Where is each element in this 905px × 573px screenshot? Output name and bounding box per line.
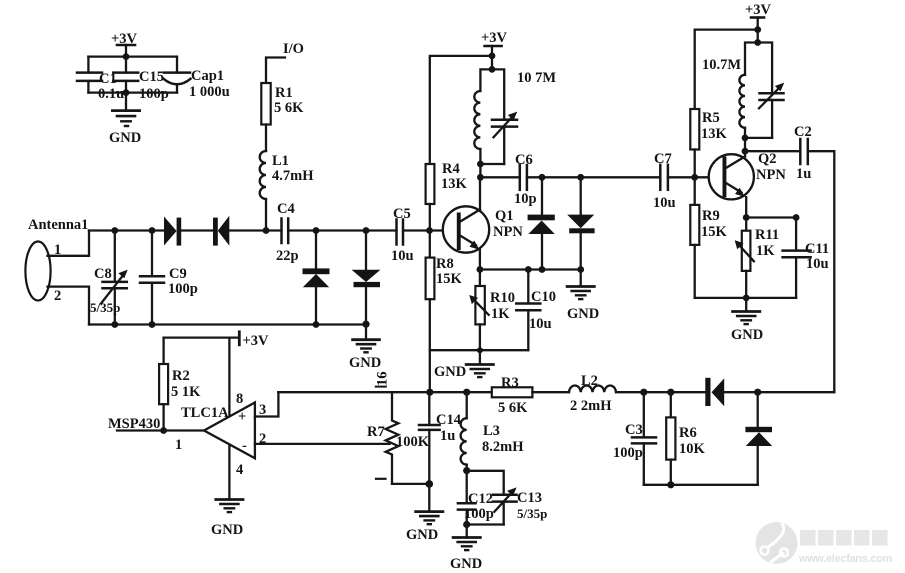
wire Q2 emitter	[743, 197, 750, 221]
transistor Q2 NPN	[709, 151, 787, 199]
svg-text:I/O: I/O	[283, 41, 304, 57]
svg-text:10u: 10u	[806, 256, 829, 272]
svg-text:C14: C14	[436, 412, 461, 428]
resistor R9 15K	[690, 177, 727, 298]
resistor R8 15K	[426, 231, 463, 300]
ground GND Q2 stage	[731, 312, 763, 344]
antenna Antenna1	[25, 217, 88, 304]
wire R2 to output node	[160, 404, 167, 434]
svg-text:10K: 10K	[679, 441, 706, 457]
wire D7 to right rail	[724, 389, 834, 396]
svg-text:1u: 1u	[796, 166, 811, 182]
svg-text:5 1K: 5 1K	[171, 384, 201, 400]
svg-text:+3V: +3V	[111, 31, 138, 47]
svg-text:100p: 100p	[464, 506, 494, 522]
svg-text:Cap1: Cap1	[191, 68, 224, 84]
label minus tap	[376, 478, 386, 480]
wire D2 to C4	[229, 229, 281, 231]
wire +3V into tank L4	[489, 56, 496, 73]
diode D4 shunt down	[352, 231, 381, 325]
capacitor C6 10p	[514, 152, 537, 207]
ground GND op-amp	[211, 500, 243, 539]
svg-text:R11: R11	[755, 227, 779, 243]
wire antenna pin 1	[48, 231, 90, 256]
resistor R4 13K	[426, 161, 468, 204]
svg-text:GND: GND	[567, 306, 599, 322]
svg-text:C6: C6	[515, 152, 533, 168]
svg-text:R10: R10	[490, 290, 515, 306]
ground GND cap bank	[109, 111, 141, 146]
svg-text:C7: C7	[654, 151, 672, 167]
wire Q1 collector	[479, 177, 481, 210]
wire main bus	[278, 389, 492, 396]
wire R8 bottom to rail and bus	[430, 299, 529, 392]
wire main line antenna to diodes	[89, 227, 164, 234]
svg-text:100p: 100p	[613, 445, 643, 461]
wire emitter rail	[480, 266, 584, 273]
capacitor C8 variable 5/35p	[90, 231, 128, 325]
capacitor C12 100p	[458, 471, 494, 525]
svg-text:10u: 10u	[653, 195, 676, 211]
wire +3V to R4	[430, 56, 492, 164]
svg-text:1K: 1K	[491, 306, 510, 322]
capacitor C2 1u	[794, 124, 812, 182]
svg-text:+: +	[238, 409, 246, 425]
svg-text:10 7M: 10 7M	[517, 70, 556, 86]
inductor tank 10 7M coil	[474, 69, 556, 164]
svg-text:GND: GND	[731, 327, 763, 343]
svg-text:TLC1A: TLC1A	[181, 405, 229, 421]
svg-text:C4: C4	[277, 201, 295, 217]
power +3V Q1 stage	[481, 30, 508, 59]
wire pin 8	[229, 338, 243, 415]
svg-text:4: 4	[236, 462, 243, 478]
diode D2 series	[213, 216, 229, 246]
wire R7 bottom	[392, 480, 433, 488]
transistor Q1 NPN	[443, 206, 524, 252]
svg-text:13K: 13K	[701, 126, 728, 142]
wire right branch	[176, 57, 178, 93]
svg-text:GND: GND	[109, 130, 141, 146]
resistor R1	[261, 83, 304, 125]
inductor tank2 10.7M coil	[702, 43, 758, 138]
wire L2 to D7	[616, 389, 705, 396]
svg-text:C9: C9	[169, 266, 187, 282]
inductor L3 8.2mH	[461, 392, 525, 474]
svg-text:R2: R2	[172, 368, 190, 384]
wire pin 2	[255, 443, 390, 445]
node pin 16	[375, 372, 391, 387]
diode D3 shunt up	[303, 231, 330, 325]
svg-text:Q2: Q2	[758, 151, 777, 167]
inductor L2 2 2mH	[569, 373, 616, 414]
svg-text:10u: 10u	[391, 248, 414, 264]
svg-text:+3V: +3V	[243, 333, 270, 349]
wire antenna pin 2	[48, 287, 90, 325]
capacitor tank2 variable	[758, 43, 785, 138]
wire bottom rail of cap bank	[88, 89, 177, 109]
power +3V op-amp	[164, 332, 269, 349]
svg-text:8: 8	[236, 391, 243, 407]
resistor R2 5 1K	[159, 364, 201, 404]
svg-text:2 2mH: 2 2mH	[570, 398, 612, 414]
svg-text:+3V: +3V	[481, 30, 508, 46]
wire emitter rail Q2	[746, 214, 799, 221]
svg-text:10u: 10u	[529, 316, 552, 332]
capacitor C7 10u	[653, 151, 676, 211]
svg-text:1u: 1u	[440, 428, 455, 444]
svg-text:100K: 100K	[396, 434, 430, 450]
svg-text:GND: GND	[349, 355, 381, 371]
svg-text:R6: R6	[679, 425, 697, 441]
svg-text:5/35p: 5/35p	[90, 300, 120, 315]
inductor L1 4.7mH	[260, 151, 315, 199]
capacitor C3 100p	[613, 392, 656, 485]
watermark logo elecfans	[756, 522, 798, 564]
svg-text:5 6K: 5 6K	[498, 400, 528, 416]
svg-text:5/35p: 5/35p	[517, 506, 547, 521]
svg-text:NPN: NPN	[493, 224, 523, 240]
wire pin 3 to bus	[255, 392, 279, 416]
svg-text:4.7mH: 4.7mH	[272, 168, 314, 184]
wire C4 to C5	[288, 227, 396, 234]
capacitor C13 variable 5/35p	[467, 471, 548, 525]
wire R3 to L2	[532, 391, 569, 393]
svg-text:1: 1	[175, 437, 182, 453]
wire C6 to C7	[527, 174, 660, 181]
wire Q2 bottom rail	[695, 295, 796, 311]
svg-text:L1: L1	[272, 153, 289, 169]
svg-text:C13: C13	[517, 490, 542, 506]
wire +3V into tank2	[754, 30, 761, 46]
svg-text:R4: R4	[442, 161, 460, 177]
capacitor Cap1 electrolytic	[164, 68, 230, 100]
wire L1 to main line	[263, 199, 270, 234]
power +3V Q2 stage	[745, 2, 772, 33]
svg-text:10.7M: 10.7M	[702, 57, 741, 73]
wire D6 to ground	[580, 270, 582, 286]
wire +3V to R2	[162, 338, 164, 364]
svg-text:GND: GND	[434, 364, 466, 380]
resistor R5 13K	[690, 109, 727, 150]
svg-text:10p: 10p	[514, 191, 537, 207]
capacitor tank variable	[492, 69, 517, 164]
wire Q1 emitter	[477, 250, 484, 273]
svg-text:C11: C11	[805, 241, 829, 257]
wire R5 to base	[694, 150, 696, 178]
diode D8 shunt up	[745, 392, 772, 485]
diode D7 series	[705, 378, 724, 406]
capacitor C15	[113, 69, 169, 102]
capacitor C14 1u	[419, 392, 461, 484]
resistor R3 5 6K	[492, 375, 533, 416]
wire +3V to R5	[695, 30, 758, 109]
wire L3 tank bottom	[463, 521, 504, 537]
svg-text:L2: L2	[581, 373, 598, 389]
wire C5 to Q1 base	[403, 227, 443, 234]
capacitor C10 10u	[516, 270, 556, 351]
wire C2 to right rail	[808, 151, 835, 392]
wire left branch	[87, 57, 89, 93]
svg-text:5 6K: 5 6K	[274, 100, 304, 116]
svg-text:15K: 15K	[436, 271, 463, 287]
wire Q2 collector diag	[725, 157, 745, 169]
node top rail of C1/C15/Cap1 bank	[88, 53, 177, 60]
wire middle branch	[125, 57, 127, 93]
svg-text:Q1: Q1	[495, 208, 514, 224]
svg-text:-: -	[242, 438, 247, 454]
svg-text:+3V: +3V	[745, 2, 772, 18]
ground GND C12	[450, 538, 482, 573]
capacitor C11 10u	[783, 218, 830, 298]
node I/O	[266, 41, 304, 83]
power rail +3V top-left	[111, 31, 138, 56]
wire C7 to Q2 base	[668, 174, 709, 181]
wire C14 node to ground	[428, 484, 430, 511]
capacitor C1	[77, 71, 124, 102]
wire detector bottom rail	[644, 481, 758, 488]
svg-text:C5: C5	[393, 206, 411, 222]
svg-text:R1: R1	[275, 85, 293, 101]
svg-text:GND: GND	[406, 527, 438, 543]
capacitor C9 100p	[140, 231, 198, 325]
svg-text:13K: 13K	[441, 176, 468, 192]
ground GND D6	[567, 287, 599, 323]
resistor R6 10K	[666, 392, 705, 485]
svg-text:16: 16	[375, 372, 391, 387]
wire tank bottom	[477, 161, 504, 181]
resistor R11 variable 1K	[735, 218, 779, 298]
ground GND R10	[434, 364, 493, 380]
ground GND antenna rail	[349, 340, 381, 371]
svg-text:C12: C12	[468, 491, 493, 507]
svg-text:0.1u: 0.1u	[98, 86, 124, 102]
wire pin 4 to ground	[228, 445, 230, 499]
svg-text:NPN: NPN	[756, 167, 786, 183]
svg-text:Antenna1: Antenna1	[28, 217, 88, 233]
svg-text:GND: GND	[450, 556, 482, 572]
op-amp U1 TLC1A	[181, 402, 266, 478]
svg-text:2: 2	[54, 288, 61, 304]
wire tank2 bottom	[742, 135, 773, 157]
node MSP430 output	[108, 416, 204, 453]
svg-text:C3: C3	[625, 422, 643, 438]
svg-text:R3: R3	[501, 375, 519, 391]
svg-text:R9: R9	[702, 208, 720, 224]
capacitor C5 10u	[391, 206, 414, 264]
svg-text:100p: 100p	[168, 281, 198, 297]
wire D1 to D2	[181, 229, 213, 231]
wire R1 to L1	[265, 125, 267, 152]
diode D1 series	[164, 217, 181, 246]
svg-text:R5: R5	[702, 110, 720, 126]
svg-text:22p: 22p	[276, 248, 299, 264]
resistor R7 100K	[367, 392, 430, 484]
svg-text:R7: R7	[367, 424, 385, 440]
capacitor C4 22p	[276, 201, 299, 264]
svg-text:GND: GND	[211, 522, 243, 538]
svg-text:1 000u: 1 000u	[189, 84, 230, 100]
watermark text	[798, 530, 892, 565]
wire antenna bottom rail	[89, 321, 370, 339]
svg-text:www.elecfans.com: www.elecfans.com	[798, 553, 892, 565]
svg-text:L3: L3	[483, 423, 500, 439]
diode D6 shunt down	[567, 177, 594, 269]
wire C6 output line	[480, 176, 519, 178]
svg-text:C15: C15	[139, 69, 164, 85]
svg-text:C8: C8	[94, 266, 112, 282]
svg-text:C10: C10	[531, 289, 556, 305]
wire collector to C2	[745, 150, 800, 152]
wire R4 to Q1 base	[429, 204, 431, 231]
svg-text:100p: 100p	[139, 86, 169, 102]
svg-text:8.2mH: 8.2mH	[482, 439, 524, 455]
resistor R10 variable 1K	[469, 270, 515, 364]
diode D5 shunt up	[528, 177, 555, 269]
svg-text:1K: 1K	[756, 243, 775, 259]
svg-text:C2: C2	[794, 124, 812, 140]
svg-text:15K: 15K	[701, 224, 728, 240]
ground GND C14	[406, 512, 443, 543]
svg-text:R8: R8	[436, 256, 454, 272]
